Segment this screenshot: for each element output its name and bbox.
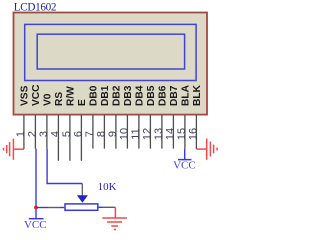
svg-text:12: 12 <box>141 128 153 140</box>
svg-text:1: 1 <box>15 131 27 137</box>
pin 13 (DB6) <box>153 85 169 148</box>
pin 8 (DB1) <box>95 85 111 148</box>
wire pin 3 (V0) to pot wiper <box>47 149 82 184</box>
wire pin 15 (BLA) to power <box>184 149 186 160</box>
ground symbol left (pin 1 VSS) <box>4 139 24 160</box>
wire junction to pot left terminal <box>36 207 64 209</box>
svg-text:16: 16 <box>187 128 199 140</box>
svg-text:DB4: DB4 <box>135 85 146 106</box>
pot wiper lead <box>81 184 83 196</box>
svg-text:R/W: R/W <box>66 86 77 106</box>
pin 12 (DB5) <box>141 85 157 148</box>
wire pot right terminal to ground <box>98 206 115 208</box>
svg-text:DB2: DB2 <box>112 85 123 106</box>
ground symbol right (pin 16 BLK) <box>196 139 217 160</box>
LCD bezel outline <box>25 24 196 80</box>
pin 2 (VCC) <box>26 84 42 149</box>
pin 4 (RS) <box>49 92 65 161</box>
pin 9 (DB2) <box>107 85 123 148</box>
svg-text:7: 7 <box>84 131 96 137</box>
svg-text:13: 13 <box>153 128 165 140</box>
svg-text:VCC: VCC <box>173 159 196 171</box>
svg-text:2: 2 <box>26 131 38 137</box>
svg-text:DB0: DB0 <box>89 85 100 106</box>
LCD screen window <box>37 34 184 69</box>
svg-text:VCC: VCC <box>24 219 47 231</box>
svg-text:5: 5 <box>61 131 73 137</box>
svg-text:8: 8 <box>95 131 107 137</box>
svg-text:BLA: BLA <box>181 84 192 106</box>
svg-text:DB1: DB1 <box>100 85 111 106</box>
svg-text:11: 11 <box>130 128 142 139</box>
svg-text:E: E <box>77 99 88 106</box>
pin 11 (DB4) <box>130 85 146 148</box>
svg-text:DB5: DB5 <box>146 85 157 106</box>
pin 15 (BLA) <box>176 84 192 148</box>
svg-text:VSS: VSS <box>20 85 31 106</box>
svg-text:LCD1602: LCD1602 <box>14 1 56 13</box>
svg-text:6: 6 <box>72 131 84 137</box>
power symbol VCC (bottom left) <box>24 219 47 231</box>
pin 14 (DB7) <box>164 85 180 148</box>
svg-text:15: 15 <box>176 128 188 140</box>
svg-text:DB7: DB7 <box>169 85 180 106</box>
pin 5 (R/W) <box>61 86 77 161</box>
svg-text:DB3: DB3 <box>123 85 134 106</box>
svg-text:14: 14 <box>164 128 176 140</box>
svg-text:9: 9 <box>107 131 119 137</box>
pin 6 (E) <box>72 99 88 161</box>
pin 7 (DB0) <box>84 85 100 148</box>
svg-text:10: 10 <box>118 128 130 140</box>
pin 1 (VSS) <box>15 85 31 149</box>
svg-text:DB6: DB6 <box>158 85 169 106</box>
junction node pin2 / pot left <box>34 206 38 210</box>
pin 16 (BLK) <box>187 84 203 149</box>
power symbol VCC (pin 15) <box>173 159 196 171</box>
pin 10 (DB3) <box>118 85 134 148</box>
svg-text:VCC: VCC <box>31 84 42 106</box>
svg-text:3: 3 <box>38 131 50 137</box>
svg-text:V0: V0 <box>43 93 54 106</box>
svg-text:4: 4 <box>49 131 61 137</box>
ground symbol bottom (pot) <box>102 207 127 229</box>
LCD module body <box>14 13 208 115</box>
pin 3 (V0) <box>38 93 54 148</box>
svg-text:BLK: BLK <box>192 84 203 106</box>
wire pin 2 (VCC) to power rail <box>35 149 37 219</box>
potentiometer RV1 <box>65 195 98 210</box>
svg-text:RS: RS <box>54 92 65 106</box>
svg-text:10K: 10K <box>98 181 117 193</box>
